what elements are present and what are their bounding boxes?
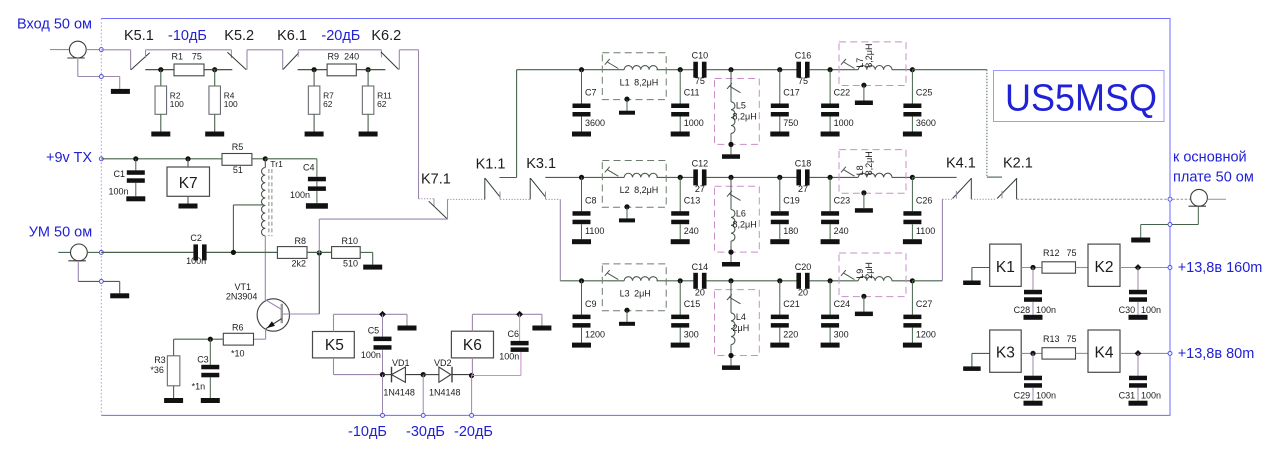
node C19 top [777, 175, 782, 180]
svg-text:C7: C7 [585, 88, 597, 98]
inductor L3 2μH [602, 264, 666, 311]
node R9 right [366, 67, 371, 72]
svg-text:C9: C9 [585, 299, 597, 309]
wire K5 top [333, 314, 335, 331]
capacitor C27 1200 [911, 281, 913, 315]
svg-text:100n: 100n [361, 350, 381, 360]
capacitor C28 100n [1032, 268, 1034, 290]
svg-text:100n: 100n [1141, 391, 1161, 401]
svg-text:62: 62 [377, 99, 387, 109]
ground C3 [201, 398, 220, 403]
node C7 top [579, 67, 584, 72]
svg-text:C13: C13 [684, 195, 701, 205]
svg-text:C4: C4 [303, 163, 315, 173]
wire main in to K5.1 [101, 49, 130, 51]
capacitor C21 220 [779, 281, 781, 315]
svg-text:K3.1: K3.1 [526, 156, 556, 172]
svg-text:+9v TX: +9v TX [46, 150, 92, 166]
node R6-C3 junction [208, 337, 213, 342]
wire C6 bottom to K6 junction [520, 352, 522, 376]
ground C30 [1129, 315, 1148, 320]
inductor L7 8,2μH [839, 42, 906, 86]
relay coil K3 [990, 330, 1022, 372]
node VD1-VD2 junction [421, 372, 426, 377]
wire R13 to K4 [1076, 352, 1089, 354]
bus K7.1 to K1.1 [448, 198, 485, 200]
svg-text:-20дБ: -20дБ [454, 424, 493, 440]
svg-text:R5: R5 [232, 142, 244, 152]
svg-text:L6: L6 [736, 208, 746, 218]
capacitor C8 1100 [581, 177, 583, 211]
svg-text:100n: 100n [186, 256, 206, 266]
wire output bus to frame [1017, 198, 1191, 200]
wire K1.1 stub to row 1 [499, 177, 516, 179]
svg-text:100: 100 [170, 99, 184, 109]
resistor R4 [214, 70, 216, 86]
svg-text:R12: R12 [1043, 248, 1060, 258]
wire band 2 segment 3 [810, 176, 859, 178]
svg-text:75: 75 [192, 52, 202, 62]
svg-text:1000: 1000 [684, 118, 704, 128]
svg-text:3600: 3600 [585, 118, 605, 128]
svg-text:C25: C25 [916, 88, 933, 98]
relay contact K4.1 [953, 178, 972, 198]
relay coil K1 [990, 244, 1022, 286]
node output on frame [1168, 197, 1172, 201]
diode VD2 1N4148 [423, 374, 439, 376]
svg-text:US5MSQ: US5MSQ [1005, 78, 1157, 120]
capacitor C15 300 [679, 281, 681, 315]
svg-text:C21: C21 [783, 299, 800, 309]
node input on frame [99, 48, 103, 52]
svg-text:к основной: к основной [1173, 150, 1247, 166]
wire K5 bottom [333, 358, 335, 375]
svg-text:C31: C31 [1119, 391, 1136, 401]
capacitor C3 [209, 339, 211, 365]
wire junction to frame -20дБ [471, 375, 473, 416]
resistor R13 75 [1042, 348, 1076, 359]
inductor L6 8,2μH (shunt) [715, 186, 760, 252]
ground C4 [306, 203, 328, 209]
svg-text:R8: R8 [294, 236, 306, 246]
node -20дБ on frame [470, 413, 474, 417]
svg-text:Вход 50 ом: Вход 50 ом [17, 17, 92, 33]
capacitor C24 300 [829, 281, 831, 315]
svg-text:K2.1: K2.1 [1003, 156, 1033, 172]
wire band 3 segment 2 [706, 280, 797, 282]
svg-text:VD1: VD1 [392, 358, 410, 368]
connector X2 УМ [58, 251, 70, 253]
svg-text:R10: R10 [341, 236, 358, 246]
svg-text:C24: C24 [834, 299, 851, 309]
svg-text:1N4148: 1N4148 [383, 387, 415, 397]
node C9 top [579, 278, 584, 283]
ground R10 [363, 265, 382, 270]
svg-text:C12: C12 [692, 158, 709, 168]
relay coil K2 [1088, 244, 1120, 286]
VT1 emitter [266, 319, 282, 329]
svg-text:C11: C11 [684, 88, 700, 98]
capacitor C26 1100 [911, 177, 913, 211]
svg-text:75: 75 [1067, 248, 1077, 258]
capacitor C12 27 (series) [693, 169, 698, 185]
svg-text:C28: C28 [1014, 305, 1031, 315]
svg-text:75: 75 [798, 76, 808, 86]
svg-text:1000: 1000 [834, 118, 854, 128]
node УМ on frame [99, 250, 103, 254]
relay contact K1.1 [484, 178, 486, 199]
node C13 top [678, 175, 683, 180]
bus K3.1 to row 3 [546, 198, 561, 200]
svg-text:100n: 100n [290, 190, 310, 200]
wire R9 right to K6.2 [356, 69, 385, 71]
wire УМ jack to frame [87, 251, 101, 253]
node +9v TX on frame [99, 157, 103, 161]
svg-text:R6: R6 [232, 323, 244, 333]
capacitor C5 [382, 314, 384, 336]
node K5-VD1 junction [380, 372, 385, 377]
svg-text:100n: 100n [1141, 305, 1161, 315]
wire emitter to R6 [254, 338, 266, 340]
svg-text:100: 100 [224, 99, 238, 109]
ground input jack [111, 89, 130, 94]
wire C2 to R8 [207, 251, 278, 253]
node Tr1 top [252, 158, 265, 160]
svg-text:R1: R1 [172, 52, 184, 62]
svg-text:C17: C17 [783, 88, 800, 98]
svg-text:1100: 1100 [585, 226, 604, 236]
svg-text:8,2μH: 8,2μH [733, 112, 757, 122]
node supply on frame [1168, 351, 1172, 355]
capacitor C7 3600 [581, 70, 583, 104]
resistor R5 [222, 154, 252, 166]
node C28 top [1030, 265, 1035, 270]
svg-text:8,2μH: 8,2μH [864, 151, 874, 175]
svg-text:2k2: 2k2 [291, 258, 306, 268]
svg-text:K3: K3 [996, 345, 1015, 362]
resistor R11 [367, 70, 369, 86]
svg-text:1N4148: 1N4148 [429, 387, 461, 397]
wire K4 to frame [1120, 352, 1170, 354]
svg-text:62: 62 [323, 99, 333, 109]
wire УМ rail to C2 [101, 251, 193, 253]
node C6 top [516, 311, 523, 318]
ground K7 [179, 204, 198, 209]
wire K3 to R1x [1021, 352, 1042, 354]
svg-text:K7: K7 [179, 175, 198, 192]
svg-text:K6.1: K6.1 [277, 28, 307, 44]
capacitor C30 100n [1137, 268, 1139, 290]
svg-text:C14: C14 [692, 262, 709, 272]
svg-text:C20: C20 [795, 262, 812, 272]
wire junction to frame -30дБ [422, 375, 424, 416]
node C2-Tr1 junction [231, 250, 236, 255]
capacitor C14 20 (series) [693, 273, 698, 289]
relay contact K2.1 [987, 176, 1002, 178]
capacitor C1 [135, 159, 137, 171]
node R9 left [312, 67, 317, 72]
wire junction to frame -10дБ [382, 375, 384, 416]
svg-text:+13,8в 160m: +13,8в 160m [1178, 260, 1263, 276]
ground K1 left [972, 267, 990, 269]
node УМ ground on frame [99, 279, 103, 283]
wire +9v TX rail [101, 158, 222, 160]
capacitor C11 1000 [679, 70, 681, 104]
svg-text:1200: 1200 [585, 329, 605, 339]
capacitor C17 750 [779, 70, 781, 104]
node C23 top [828, 175, 833, 180]
node R1 left [158, 67, 163, 72]
wire K6 top [471, 314, 473, 331]
ground C1 [126, 196, 145, 201]
svg-text:3600: 3600 [916, 118, 936, 128]
wire row 1 start [517, 69, 582, 71]
resistor R7 [313, 70, 315, 86]
node C5 top [379, 311, 386, 318]
capacitor C18 27 (series) [796, 169, 801, 185]
svg-text:100n: 100n [1036, 391, 1056, 401]
node C8 top [579, 175, 584, 180]
svg-text:K7.1: K7.1 [421, 172, 451, 188]
svg-text:1200: 1200 [916, 329, 936, 339]
svg-text:51: 51 [233, 165, 243, 175]
svg-text:C30: C30 [1119, 305, 1136, 315]
svg-text:R9: R9 [328, 52, 340, 62]
capacitor C31 100n [1137, 353, 1139, 375]
wire K5.1 to K5.2 [146, 49, 232, 51]
svg-text:K6: K6 [463, 337, 482, 354]
svg-text:220: 220 [783, 329, 798, 339]
capacitor C19 180 [779, 177, 781, 211]
svg-text:1100: 1100 [916, 226, 935, 236]
capacitor C29 100n [1032, 353, 1034, 375]
svg-text:плате 50 ом: плате 50 ом [1173, 170, 1254, 186]
svg-text:20: 20 [695, 287, 705, 297]
svg-text:27: 27 [798, 184, 808, 194]
svg-text:L2 8,2μH: L2 8,2μH [620, 185, 659, 195]
capacitor C6 [519, 314, 521, 341]
VT1 base wire to R8 junction [282, 313, 320, 315]
wire R10 to ground [360, 251, 373, 253]
relay coil K6 [451, 331, 493, 358]
svg-text:L3 2μH: L3 2μH [620, 289, 651, 299]
resistor R9 [327, 64, 356, 76]
svg-text:C1: C1 [114, 169, 126, 179]
wire band 1 segment 3 [810, 69, 859, 71]
ground УМ jack [110, 293, 129, 298]
wire K6.1 to K6.2 [298, 49, 381, 51]
relay coil K7 [187, 159, 189, 167]
resistor R3 [173, 339, 175, 356]
svg-text:300: 300 [834, 329, 849, 339]
svg-text:*36: *36 [150, 365, 164, 375]
inductor L2 8,2μH [602, 161, 666, 208]
svg-text:510: 510 [343, 258, 358, 268]
node C11 top [678, 67, 683, 72]
svg-text:100n: 100n [499, 351, 519, 361]
svg-text:K1: K1 [996, 259, 1015, 276]
wire K1 to R1x [1021, 267, 1042, 269]
ground R2 [151, 132, 170, 137]
svg-text:100n: 100n [1036, 305, 1056, 315]
node C31 top [1135, 350, 1142, 357]
capacitor C20 20 (series) [796, 273, 801, 289]
svg-text:VD2: VD2 [434, 358, 452, 368]
svg-text:K4: K4 [1095, 345, 1114, 362]
svg-text:*10: *10 [231, 349, 245, 359]
wire band 3 segment 3 [810, 280, 859, 282]
wire Tr1 tap [232, 205, 234, 253]
wire Tr1 bottom to VT1 collector [264, 236, 266, 300]
wire K7.1 pole jog [447, 199, 449, 219]
wire K6.2 to K7.1 [399, 49, 418, 51]
wire R1 right to K5.2 [204, 69, 232, 71]
wire band 2 segment 2 [706, 176, 797, 178]
svg-text:C18: C18 [795, 158, 812, 168]
node C15 top [678, 278, 683, 283]
wire input jack ground [77, 58, 79, 77]
relay coil K5 [313, 332, 355, 358]
ground output jack [1131, 238, 1150, 243]
svg-text:750: 750 [783, 118, 798, 128]
wire K6 bottom [471, 358, 473, 376]
wire row 1 to K2.1 [912, 69, 987, 71]
svg-text:300: 300 [684, 329, 699, 339]
bus K4.1 to K2.1 [971, 198, 996, 200]
wire input jack to frame [86, 49, 101, 51]
node C17 top [777, 67, 782, 72]
ground K5 line [398, 326, 417, 331]
svg-text:L1 8,2μH: L1 8,2μH [620, 78, 659, 88]
connector X1 Вход [50, 49, 69, 51]
capacitor C9 1200 [581, 281, 583, 315]
svg-text:K4.1: K4.1 [946, 156, 976, 172]
svg-text:Tr1: Tr1 [270, 159, 283, 169]
connector X3 output [1189, 189, 1208, 206]
node supply on frame [1168, 266, 1172, 270]
node input ground on frame [99, 75, 103, 79]
wire band 2 segment 1 [582, 176, 625, 178]
svg-text:K1.1: K1.1 [476, 157, 506, 173]
svg-text:2N3904: 2N3904 [226, 292, 258, 302]
ground C28 [1024, 315, 1043, 320]
svg-text:C27: C27 [916, 299, 933, 309]
svg-text:240: 240 [344, 52, 359, 62]
transformer Tr1 [264, 159, 266, 168]
ground R3 [164, 398, 183, 403]
svg-text:240: 240 [684, 226, 699, 236]
svg-text:УМ 50 ом: УМ 50 ом [29, 225, 93, 241]
ground R7 [305, 132, 324, 137]
node C27 top [910, 278, 915, 283]
node -10дБ on frame [381, 413, 385, 417]
wire output jack ground [1197, 206, 1199, 224]
svg-text:C26: C26 [916, 195, 933, 205]
resistor R2 [160, 70, 162, 86]
wire R6 left [174, 338, 224, 340]
node K7 top [185, 156, 190, 161]
relay contact K3.1 [529, 178, 531, 199]
svg-text:240: 240 [834, 226, 849, 236]
wire R12 to K2 [1076, 267, 1089, 269]
inductor L4 2μH (shunt) [715, 290, 760, 356]
svg-text:C10: C10 [692, 51, 709, 61]
svg-text:K2: K2 [1095, 259, 1114, 276]
diode VD1 1N4148 [383, 374, 392, 376]
resistor R8 [277, 247, 307, 259]
node C24 top [828, 278, 833, 283]
svg-text:K5.2: K5.2 [224, 28, 254, 44]
svg-text:75: 75 [1067, 334, 1077, 344]
inductor L1 8,2μH [602, 53, 666, 100]
inductor L9 2μH [839, 253, 906, 297]
svg-text:C19: C19 [783, 195, 800, 205]
capacitor C16 75 (series) [796, 62, 801, 78]
resistor R1 [174, 64, 204, 76]
svg-text:R13: R13 [1043, 334, 1060, 344]
capacitor C4 [265, 158, 317, 160]
bus K1.1 to K3.1 [500, 198, 530, 200]
ground K3 left [972, 352, 990, 354]
ground R11 [359, 132, 378, 137]
svg-text:C2: C2 [190, 233, 202, 243]
ground C29 [1024, 401, 1043, 406]
svg-text:L4: L4 [736, 312, 746, 322]
wire -20dB pad [298, 69, 328, 71]
node -30дБ on frame [421, 413, 425, 417]
relay contact K6.1 [282, 50, 284, 70]
ground C31 [1129, 401, 1148, 406]
svg-text:C8: C8 [585, 195, 597, 205]
US5MSQ logo box [994, 71, 1165, 122]
svg-text:27: 27 [695, 184, 705, 194]
wire УМ jack ground [77, 261, 79, 282]
svg-text:C3: C3 [197, 355, 209, 365]
wire band 3 segment 1 [582, 280, 625, 282]
svg-text:C15: C15 [684, 299, 701, 309]
svg-text:2μH: 2μH [733, 323, 750, 333]
svg-text:-30дБ: -30дБ [406, 424, 445, 440]
svg-text:C29: C29 [1014, 391, 1031, 401]
relay contact K6.2 [380, 50, 382, 58]
bus row3 corner to K4.1 [942, 198, 952, 200]
svg-text:-10дБ: -10дБ [168, 28, 207, 44]
svg-text:8,2μH: 8,2μH [733, 219, 757, 229]
wire band 1 segment 1 [582, 69, 625, 71]
wire common from R8 junction to K7.1 [318, 219, 320, 253]
wire K2 to frame [1120, 267, 1170, 269]
svg-text:C5: C5 [368, 326, 380, 336]
node C21 top [777, 278, 782, 283]
svg-text:100n: 100n [109, 187, 129, 197]
svg-text:C6: C6 [508, 329, 520, 339]
inductor L8 8,2μH [839, 150, 906, 194]
node C22 top [828, 67, 833, 72]
svg-text:2μH: 2μH [864, 262, 874, 279]
relay contact K5.1 [130, 50, 132, 70]
svg-text:+13,8в 80m: +13,8в 80m [1178, 346, 1255, 362]
node C26 top [910, 175, 915, 180]
svg-text:K5.1: K5.1 [124, 28, 154, 44]
wire row 2 to K4.1 [912, 176, 956, 178]
resistor R10 [332, 247, 361, 259]
capacitor C23 240 [829, 177, 831, 211]
svg-text:*1n: *1n [192, 382, 206, 392]
svg-text:C22: C22 [834, 88, 851, 98]
svg-text:K6.2: K6.2 [371, 28, 401, 44]
node C30 top [1135, 264, 1142, 271]
svg-text:C23: C23 [834, 195, 851, 205]
